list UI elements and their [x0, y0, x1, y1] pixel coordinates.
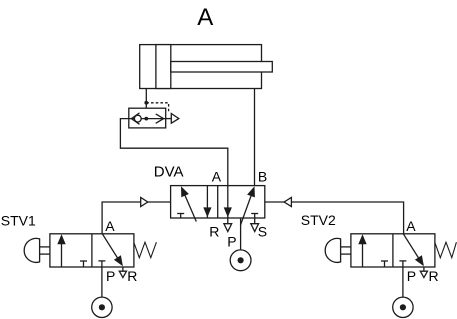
label DVA port R: [209, 223, 219, 239]
svg-text:P: P: [227, 233, 236, 249]
svg-text:DVA: DVA: [154, 164, 184, 181]
valve DVA exhaust triangle R: [224, 224, 232, 232]
quick exhaust valve check ball: [134, 115, 141, 122]
compressed air source for DVA: [230, 250, 251, 271]
wire STV2 port P to source: [402, 261, 404, 297]
pilot dashed line of quick exhaust valve: [146, 103, 168, 112]
wire quick exhaust valve to DVA port A: [120, 119, 227, 186]
svg-text:A: A: [212, 168, 222, 184]
label STV2: [301, 212, 336, 228]
label title A: [197, 4, 213, 31]
valve STV1 return spring: [134, 242, 157, 258]
svg-text:STV1: STV1: [1, 212, 36, 228]
valve STV1 pushbutton actuator: [24, 238, 50, 262]
valve STV1 exhaust stub R: [122, 267, 124, 271]
valve STV2 exhaust stub R: [423, 267, 425, 271]
svg-text:R: R: [429, 268, 439, 284]
pilot triangle left of DVA: [141, 197, 148, 206]
svg-text:S: S: [258, 223, 267, 239]
label STV1 port A: [105, 218, 115, 234]
wire cylinder left port to quick exhaust valve: [145, 89, 147, 119]
pilot triangle right of DVA: [284, 197, 291, 206]
valve STV2 pushbutton actuator: [325, 238, 351, 262]
valve STV2 exhaust triangle R: [420, 271, 427, 277]
valve STV2 right box blocked port P: [399, 260, 406, 262]
svg-text:A: A: [105, 218, 115, 234]
valve STV2 left box blocked port R: [381, 261, 388, 267]
valve STV2 return spring: [435, 242, 457, 258]
label STV1 port P: [106, 268, 115, 284]
quick exhaust valve flow arrow: [156, 114, 164, 123]
valve DVA exhaust triangle S: [251, 224, 259, 232]
cylinder A body: [140, 45, 262, 89]
junction node above quick exhaust valve: [144, 101, 148, 105]
cylinder A piston: [156, 45, 171, 89]
valve DVA left box flow arrow B to S: [203, 186, 211, 218]
valve STV1 exhaust triangle R: [119, 271, 126, 277]
svg-text:R: R: [127, 268, 137, 284]
quick exhaust valve internal junction dot: [144, 117, 148, 121]
svg-text:B: B: [258, 168, 267, 184]
label DVA port S: [258, 223, 267, 239]
svg-text:R: R: [209, 223, 219, 239]
quick exhaust valve exhaust triangle: [171, 114, 179, 124]
svg-text:A: A: [406, 218, 416, 234]
svg-text:A: A: [197, 4, 213, 31]
svg-text:STV2: STV2: [301, 212, 336, 228]
wire cylinder right port to DVA port B: [254, 89, 256, 186]
valve STV2 right box flow arrow A to R: [403, 234, 424, 266]
wire DVA port P to source: [240, 218, 242, 250]
svg-text:P: P: [407, 268, 416, 284]
valve DVA body: [171, 186, 265, 218]
label DVA port B: [258, 168, 267, 184]
pilot line STV1 to DVA left: [102, 202, 171, 234]
pilot line STV2 to DVA right: [265, 202, 404, 234]
quick exhaust valve exhaust stub: [166, 118, 172, 120]
label STV1: [1, 212, 36, 228]
label DVA: [154, 164, 184, 181]
valve DVA right box flow line A to R with arrow: [224, 186, 232, 224]
quick exhaust valve body: [129, 108, 166, 128]
label STV2 port A: [406, 218, 416, 234]
valve STV2 body: [351, 234, 435, 267]
compressed air source for STV2: [393, 297, 413, 317]
label DVA port P: [227, 233, 236, 249]
valve DVA exhaust stub R: [254, 218, 256, 224]
valve STV1 right box flow arrow A to R: [102, 234, 123, 266]
cylinder A piston rod: [171, 62, 272, 73]
valve STV1 left box blocked port R: [80, 261, 87, 267]
label DVA port A: [212, 168, 222, 184]
wire STV1 port P to source: [101, 261, 103, 297]
svg-text:P: P: [106, 268, 115, 284]
quick exhaust valve internal flow line: [129, 118, 166, 120]
valve DVA right box blocked port S: [251, 214, 258, 219]
label STV1 port R: [127, 268, 137, 284]
compressed air source for STV1: [92, 297, 112, 317]
label STV2 port R: [429, 268, 439, 284]
valve STV1 body: [50, 234, 134, 267]
quick exhaust valve check seat: [131, 113, 139, 124]
valve STV2 left box flow arrow P to A: [358, 234, 366, 267]
valve STV1 left box flow arrow P to A: [57, 234, 65, 267]
label STV2 port P: [407, 268, 416, 284]
valve DVA left box blocked port R: [177, 214, 184, 219]
valve STV1 right box blocked port P: [98, 260, 105, 262]
valve DVA right box flow arrow P to B: [241, 186, 255, 225]
valve DVA left box flow arrow P to A: [181, 186, 196, 221]
